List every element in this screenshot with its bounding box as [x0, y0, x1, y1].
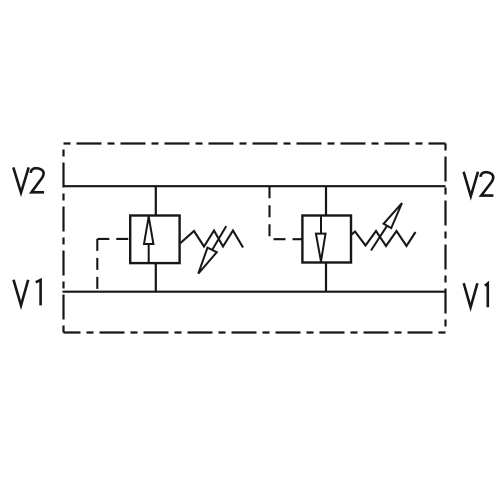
wire V1 line	[63, 291, 446, 293]
wire left valve top stub	[155, 186, 157, 215]
relief valve V2 flow arrow	[316, 216, 326, 262]
enclosure boundary left	[62, 144, 64, 333]
wire V2 line	[63, 185, 446, 187]
adjustment arrow right	[371, 203, 402, 251]
enclosure boundary top	[64, 142, 446, 144]
spring left	[181, 231, 244, 248]
wire right valve top stub	[325, 186, 327, 215]
pilot line left (from V1)	[97, 238, 130, 240]
wire right valve bottom stub	[325, 263, 327, 292]
port label V1 left	[14, 280, 41, 306]
enclosure boundary bottom	[64, 331, 446, 333]
enclosure boundary right	[444, 144, 446, 333]
relief valve V2 body	[302, 216, 351, 263]
port label V2 right	[464, 172, 494, 196]
relief valve V1 flow arrow	[144, 217, 153, 263]
adjustment arrow left	[198, 226, 226, 274]
wire left valve bottom stub	[155, 263, 157, 292]
relief valve V1 body	[130, 216, 179, 264]
spring right	[351, 231, 416, 246]
port label V2 left	[13, 167, 44, 192]
port label V1 right	[464, 283, 488, 307]
pilot line right (from V2)	[270, 186, 303, 239]
